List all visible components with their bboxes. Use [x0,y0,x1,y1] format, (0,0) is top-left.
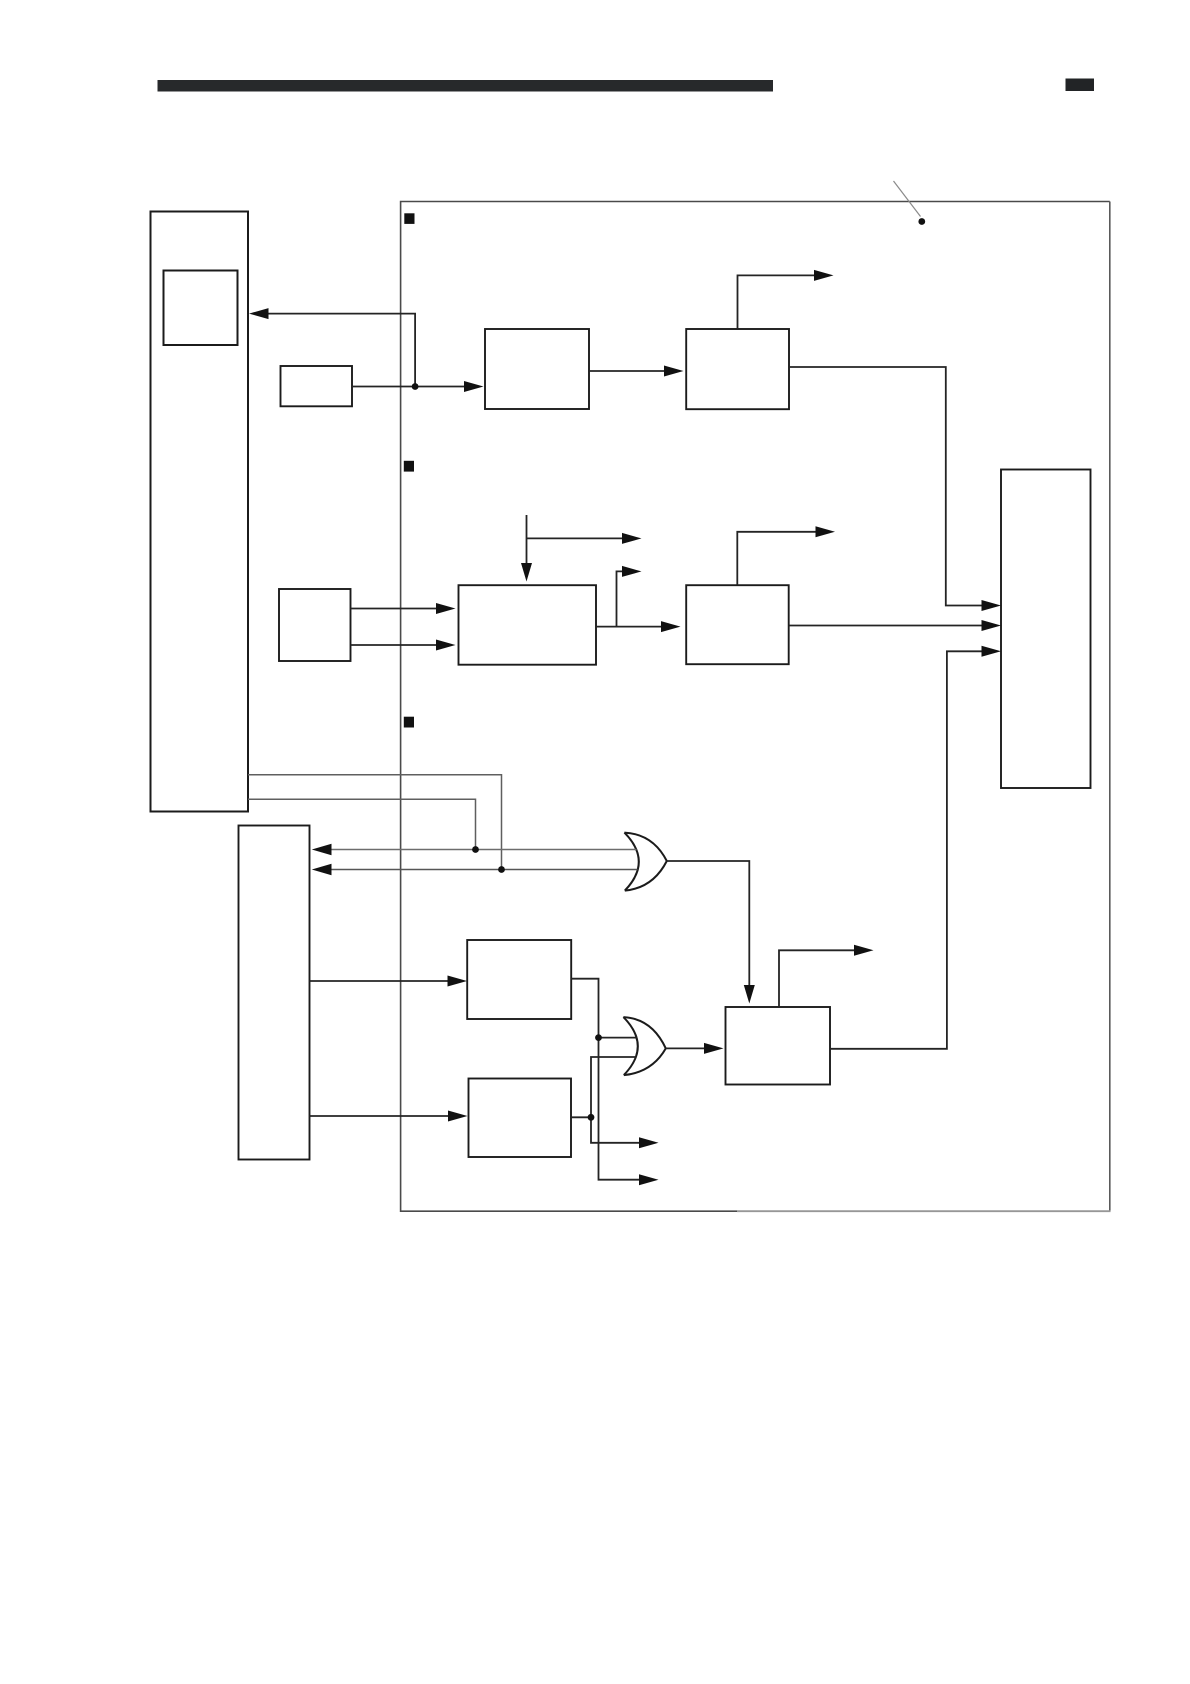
section bullet 3 [404,717,414,728]
section bullet 1 [404,213,414,224]
arrowhead into bottom block 1 [448,976,468,987]
wire: row2 right block top stub [737,532,815,585]
bottom block 1 [467,940,571,1019]
wire: lower bus into lower-left block and OR G1 [332,869,638,871]
branch down to arrow [591,1117,639,1143]
wire: row2 small block output 2 [351,644,437,646]
arrowhead into left tall block [249,308,269,319]
wire: lower-left block output 2 [310,1115,449,1117]
row1 block A [485,329,589,409]
arrowhead into lower-left block (upper) [312,844,332,855]
wire: row2 middle block output [596,626,661,628]
branch into OR G2 top input [599,1037,638,1039]
row2 middle block [459,585,597,665]
header rule bar [158,80,774,92]
arrowhead into lower-left block (lower) [312,864,332,875]
arrowhead into row2 right block [661,621,681,632]
wire: branch right from vertical drop [527,537,623,539]
wire: stub up from middle output [617,571,624,626]
wire: lower-left block output 1 [310,980,448,982]
wire: left tall block line 1 down to lower bus [248,775,502,870]
main border right edge [1109,202,1111,1212]
main dashed-area border (outer functional-block frame) [401,202,1110,1212]
lower-left tall block (I/O column) [239,826,310,1160]
junction block1 branch [595,1034,602,1041]
wire: row2 right block output to right tall block input 2 [789,625,982,627]
arrowhead branch right [622,533,642,544]
row2 small block [279,589,351,661]
main border bottom-right (lighter) segment [737,1210,1111,1212]
junction upper bus [472,846,479,853]
arrowhead into block A [464,381,484,392]
arrowhead down into bottom-right block [744,985,755,1004]
branch up into OR G2 bottom input [591,1057,637,1117]
leader line to note dot [894,181,921,217]
arrowhead bottom output 1 [639,1174,659,1185]
OR gate G1 [624,833,666,891]
junction on oscillator line [412,383,419,390]
right tall block (driver column) [1001,470,1091,789]
wire: row2 small block output 1 [351,608,437,610]
note dot [918,218,925,225]
row2 right block [686,585,789,664]
arrowhead into right tall block 3 [982,646,1002,657]
wire: block A to block B [589,370,664,372]
wire: left tall block line 2 down to upper bus [248,799,476,849]
row1 block B [686,329,789,409]
wire: bottom-right block top stub out [779,950,854,1007]
junction lower bus [498,866,505,873]
arrowhead down into middle block [521,563,532,582]
arrowhead row2 input 1 [436,603,456,614]
wire: bottom block 1 output to OR G2 top input and down arrow [571,979,639,1180]
header page-number block [1066,79,1095,92]
wire: block B output down to right tall block input 1 [789,367,982,606]
wire: bottom block 2 output to OR G2 bottom input and down arrow [571,1116,591,1118]
section bullet 2 [404,461,414,472]
wire: OR G2 output into bottom-right block [666,1047,704,1049]
wire: block B top stub out [738,275,815,329]
arrowhead top stub B [814,270,834,281]
arrowhead into right tall block 2 [982,620,1002,631]
arrowhead into right tall block 1 [982,600,1002,611]
arrowhead into bottom block 2 [448,1111,468,1122]
wire: upper bus into lower-left block and OR G1 [332,849,637,851]
junction block2 branch [588,1114,595,1121]
wire: OR G1 output down into bottom-right block [667,861,750,985]
bottom-right block [726,1007,831,1085]
bottom block 2 [469,1079,572,1158]
arrowhead into bottom-right block [704,1043,724,1054]
wire: bottom-right block output up to right tall block input 3 [830,651,982,1049]
arrowhead bottom output 2 [639,1137,659,1148]
wire: oscillator output to block A with branch to left tall block [269,314,465,387]
row1 small block (oscillator) [281,366,353,406]
inner sub-block of left tall block [164,271,238,346]
OR gate G2 [623,1017,665,1075]
wire: vertical drop into row2 middle block [526,515,528,564]
arrowhead top stub row2 [816,526,836,537]
arrowhead top stub bottom-right [854,945,874,956]
arrowhead stub [622,566,642,577]
arrowhead row2 input 2 [436,640,456,651]
arrowhead into block B [664,366,684,377]
left tall block (CPU column) [151,212,249,812]
